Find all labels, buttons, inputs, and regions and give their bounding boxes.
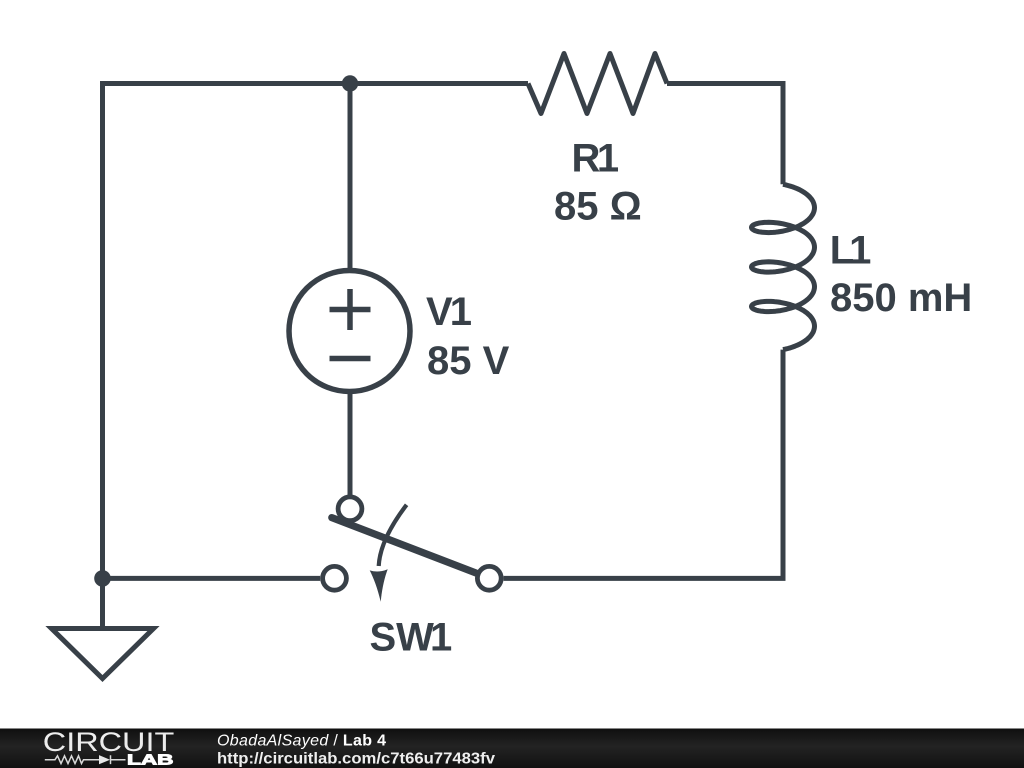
- ground stem: [100, 578, 105, 628]
- voltage source V1 circle: [289, 271, 410, 392]
- wire left vertical and top horizontal: [103, 84, 529, 579]
- V1 plus sign: [330, 289, 371, 330]
- wire V1 bottom to switch common terminal: [348, 394, 353, 495]
- switch SW1 actuation arc: [379, 505, 407, 566]
- wire bottom-left from junction to switch left terminal: [103, 576, 321, 581]
- junction node dot top: [342, 75, 358, 91]
- switch SW1 blade: [332, 518, 476, 573]
- svg-text:85 Ω: 85 Ω: [554, 184, 642, 228]
- wire top junction down to V1 top: [348, 84, 353, 269]
- footer bar: [0, 729, 1024, 768]
- svg-text:http://circuitlab.com/c7t66u77: http://circuitlab.com/c7t66u77483fv: [217, 751, 495, 768]
- inductor L1 coil: [752, 184, 815, 349]
- wire inductor down, bottom-right corner, to switch right terminal: [504, 350, 783, 579]
- svg-text:SW1: SW1: [370, 616, 453, 660]
- svg-text:850 mH: 850 mH: [830, 276, 972, 320]
- switch SW1 left terminal circle: [323, 566, 347, 590]
- svg-text:L1: L1: [830, 229, 872, 273]
- V1 minus sign: [330, 356, 371, 362]
- switch SW1 arrowhead: [370, 569, 388, 602]
- resistor R1: [528, 54, 667, 114]
- junction node dot bottom-left: [94, 570, 111, 587]
- svg-text:R1: R1: [572, 136, 620, 180]
- svg-text:LAB: LAB: [127, 752, 174, 768]
- ground triangle: [52, 629, 154, 679]
- footer logo resistor-diode squiggle: [45, 755, 126, 764]
- wire resistor to top-right corner down to inductor: [667, 84, 783, 185]
- svg-text:85 V: 85 V: [427, 339, 510, 383]
- switch SW1 common terminal circle: [338, 497, 362, 521]
- svg-text:ObadaAlSayed / Lab 4: ObadaAlSayed / Lab 4: [217, 732, 386, 749]
- switch SW1 right terminal circle: [477, 566, 501, 590]
- svg-text:V1: V1: [426, 290, 472, 334]
- footer logo diode triangle: [99, 755, 110, 764]
